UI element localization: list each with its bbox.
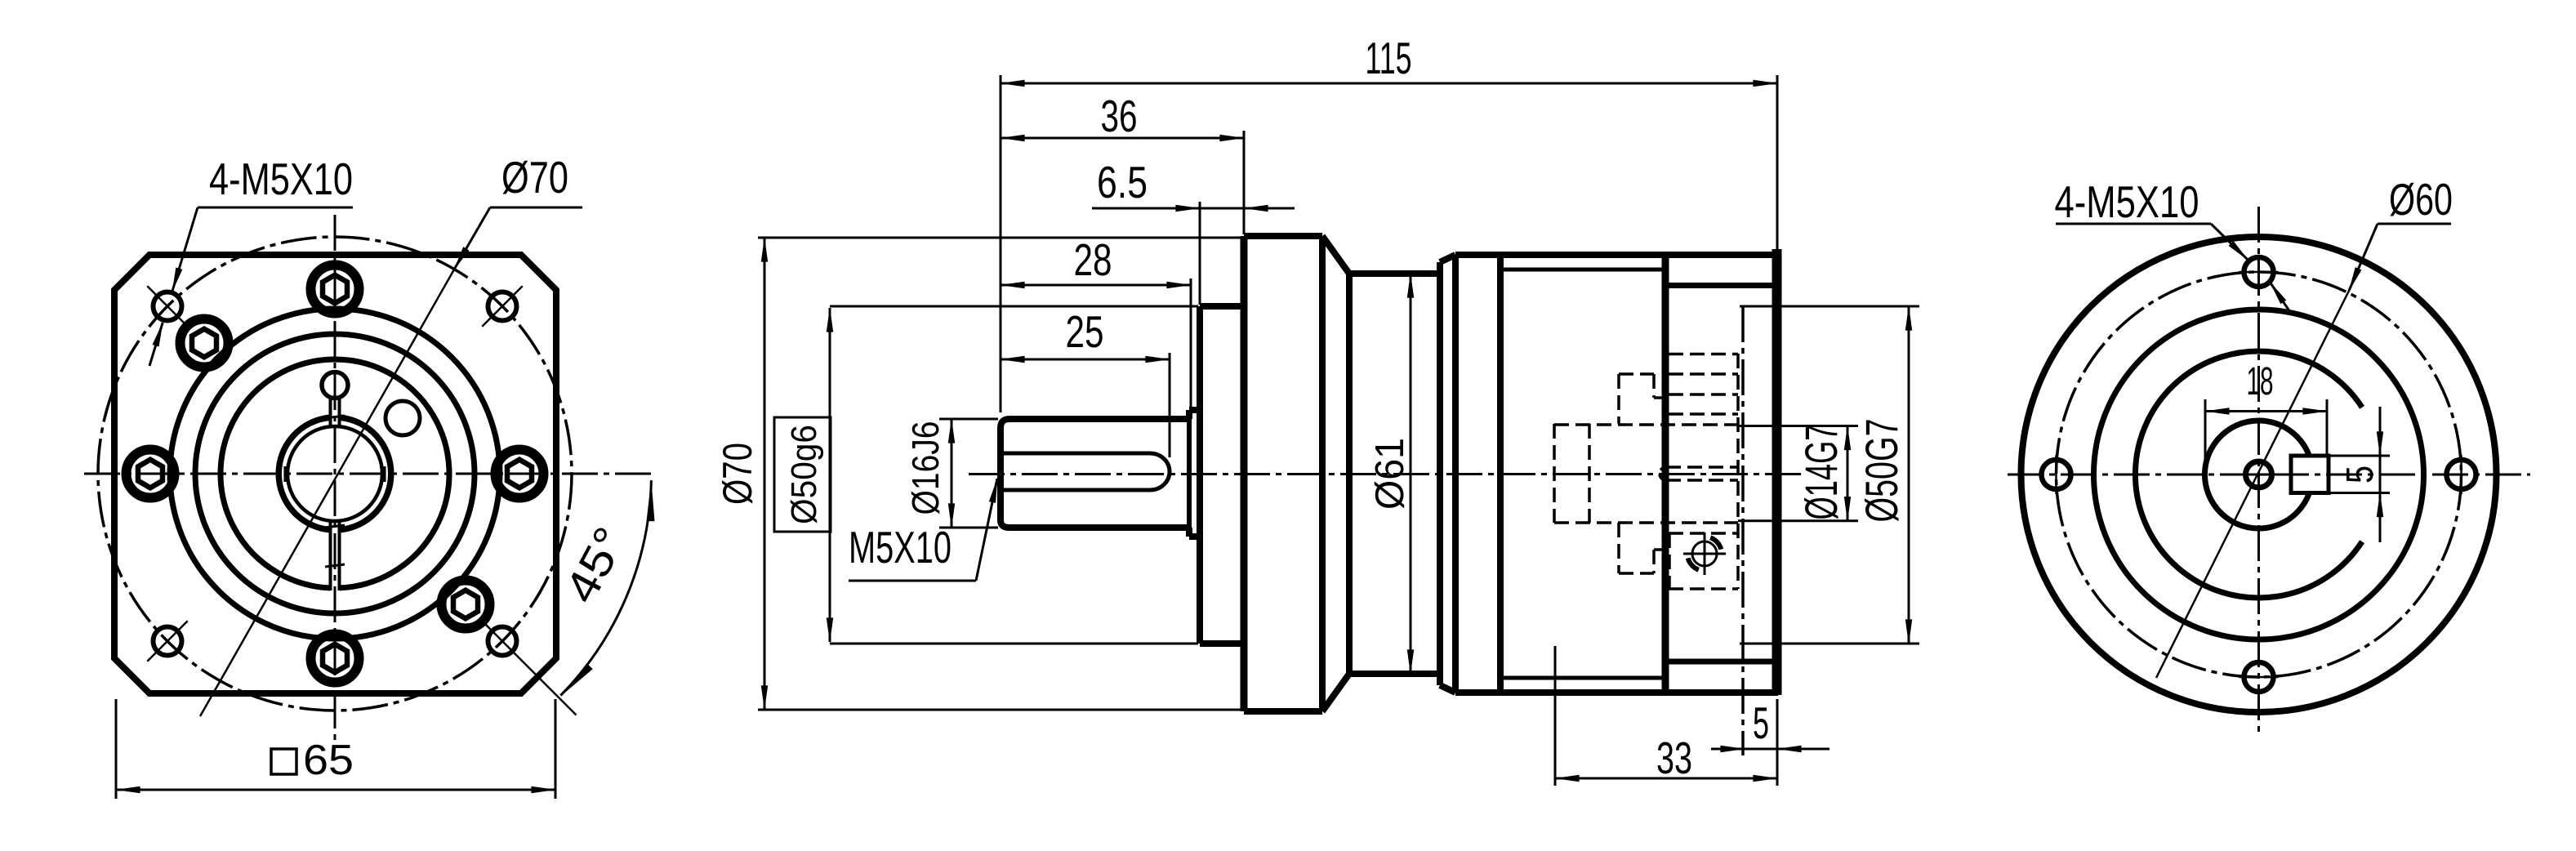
bottom slit ticks <box>325 525 345 528</box>
rear block inner lines <box>1500 268 1665 272</box>
dim phi50G7 <box>1740 305 1919 308</box>
svg-text:Ø50g6: Ø50g6 <box>784 425 824 524</box>
input cap <box>1662 252 1669 695</box>
svg-text:Ø70: Ø70 <box>715 443 760 505</box>
left view square flange outline <box>114 255 556 693</box>
hidden recess phi50G7 <box>1736 354 1740 589</box>
rear keyway <box>2291 456 2329 493</box>
phi61 neck <box>1346 274 1353 674</box>
dimension square 65 <box>115 699 118 799</box>
svg-text:115: 115 <box>1366 33 1412 83</box>
left view horizontal centerline <box>84 473 653 475</box>
hidden spline rows <box>1669 353 1738 356</box>
svg-text:28: 28 <box>1074 234 1112 285</box>
hub circle with bottom slit gap <box>221 359 449 588</box>
svg-text:M5X10: M5X10 <box>849 522 952 573</box>
rear bolt hole right <box>2447 460 2476 489</box>
clamp ring ticks right <box>383 466 386 482</box>
dim phi61 <box>1410 274 1412 674</box>
middle view centerline <box>969 473 1805 475</box>
svg-text:5: 5 <box>2338 466 2381 483</box>
svg-text:Ø60: Ø60 <box>2389 174 2453 225</box>
corner hole M5 lower-right <box>488 627 517 656</box>
svg-text:33: 33 <box>1656 733 1692 783</box>
dim 36 <box>1243 131 1246 234</box>
dim phi14G7 <box>1738 425 1858 427</box>
left view vertical centerline <box>334 215 336 745</box>
housing front flange phi70 <box>1241 236 1248 711</box>
dim phi70 left <box>758 237 1241 239</box>
corner hole M5 lower-left <box>154 627 182 656</box>
dim 33 <box>1554 646 1557 786</box>
taper to phi61 <box>1322 236 1349 274</box>
shaft keyway side view <box>1002 453 1170 490</box>
center pilot hole <box>2246 461 2272 488</box>
svg-text:4-M5X10: 4-M5X10 <box>209 154 353 204</box>
clamp ring ticks left <box>278 466 281 482</box>
right view horizontal centerline <box>2008 474 2530 476</box>
rear circle mid <box>2094 310 2424 639</box>
small hole upper right <box>386 401 420 435</box>
corner hole M5 upper-right <box>488 292 517 321</box>
phi50g6 boss <box>1197 306 1203 644</box>
dim 25 <box>1169 353 1171 457</box>
top slit lines <box>329 398 332 426</box>
svg-text:25: 25 <box>1066 306 1104 357</box>
svg-text:Ø61: Ø61 <box>1368 438 1412 510</box>
flange circle outer <box>170 309 500 639</box>
hex socket bolt top <box>311 265 359 314</box>
dim phi16J6 <box>939 418 998 421</box>
svg-text:5: 5 <box>1753 697 1769 748</box>
svg-text:36: 36 <box>1101 91 1138 141</box>
bore inner circle <box>287 426 382 521</box>
corner hole M5 upper-left <box>154 292 182 321</box>
svg-text:4-M5X10: 4-M5X10 <box>2055 176 2199 227</box>
dim 6.5 <box>1199 202 1201 305</box>
bolt circle phi70 dash-dot <box>98 237 572 711</box>
hex socket bolt upper-left <box>180 319 229 368</box>
rear bolt hole top <box>2244 257 2274 287</box>
bore outer ring with slit gaps <box>279 417 329 529</box>
dim 28 <box>1190 278 1192 408</box>
dim 5 keyway <box>2330 455 2390 457</box>
hidden coupling outline <box>1553 424 1556 523</box>
bolt circle phi60 dash-dot <box>2057 272 2462 677</box>
hub circle with keyway gap <box>2204 421 2309 528</box>
dim 5 cap <box>1745 748 1777 751</box>
rear bolt hole left <box>2042 460 2071 489</box>
dim 115 <box>1000 75 1002 412</box>
hex socket bolt lower-right <box>442 581 490 629</box>
rear flange outer circle <box>2021 237 2497 712</box>
hex socket bolt bottom <box>311 635 359 683</box>
dim phi50g6 boxed <box>774 417 831 532</box>
svg-text:Ø14G7: Ø14G7 <box>1795 425 1847 520</box>
datum target symbol <box>1683 532 1726 575</box>
hex socket bolt left <box>127 450 175 498</box>
center hole tick <box>2243 474 2275 476</box>
rear block outline <box>1452 255 1459 693</box>
svg-text:6.5: 6.5 <box>1097 157 1148 207</box>
hex socket bolt right <box>496 450 544 498</box>
step face <box>1437 262 1443 685</box>
output shaft phi16 <box>1001 419 1189 528</box>
svg-text:18: 18 <box>2247 360 2274 403</box>
slit end drill hole <box>322 372 348 399</box>
svg-text:Ø50G7: Ø50G7 <box>1856 419 1907 523</box>
rear circle open right <box>2135 351 2362 598</box>
svg-text:Ø16J6: Ø16J6 <box>904 421 947 515</box>
flange circle mid <box>195 334 475 613</box>
dim 18 <box>2204 399 2207 470</box>
rear bolt hole bottom <box>2244 662 2274 692</box>
shaft collar <box>1189 407 1200 413</box>
svg-text:Ø70: Ø70 <box>501 152 568 203</box>
top slit ticks <box>325 416 345 418</box>
svg-text:65: 65 <box>303 737 354 784</box>
45 degree angular dimension <box>560 480 651 696</box>
bottom slit lines <box>329 521 332 590</box>
right view vertical centerline <box>2257 207 2260 733</box>
hidden center slot <box>1666 466 1738 469</box>
